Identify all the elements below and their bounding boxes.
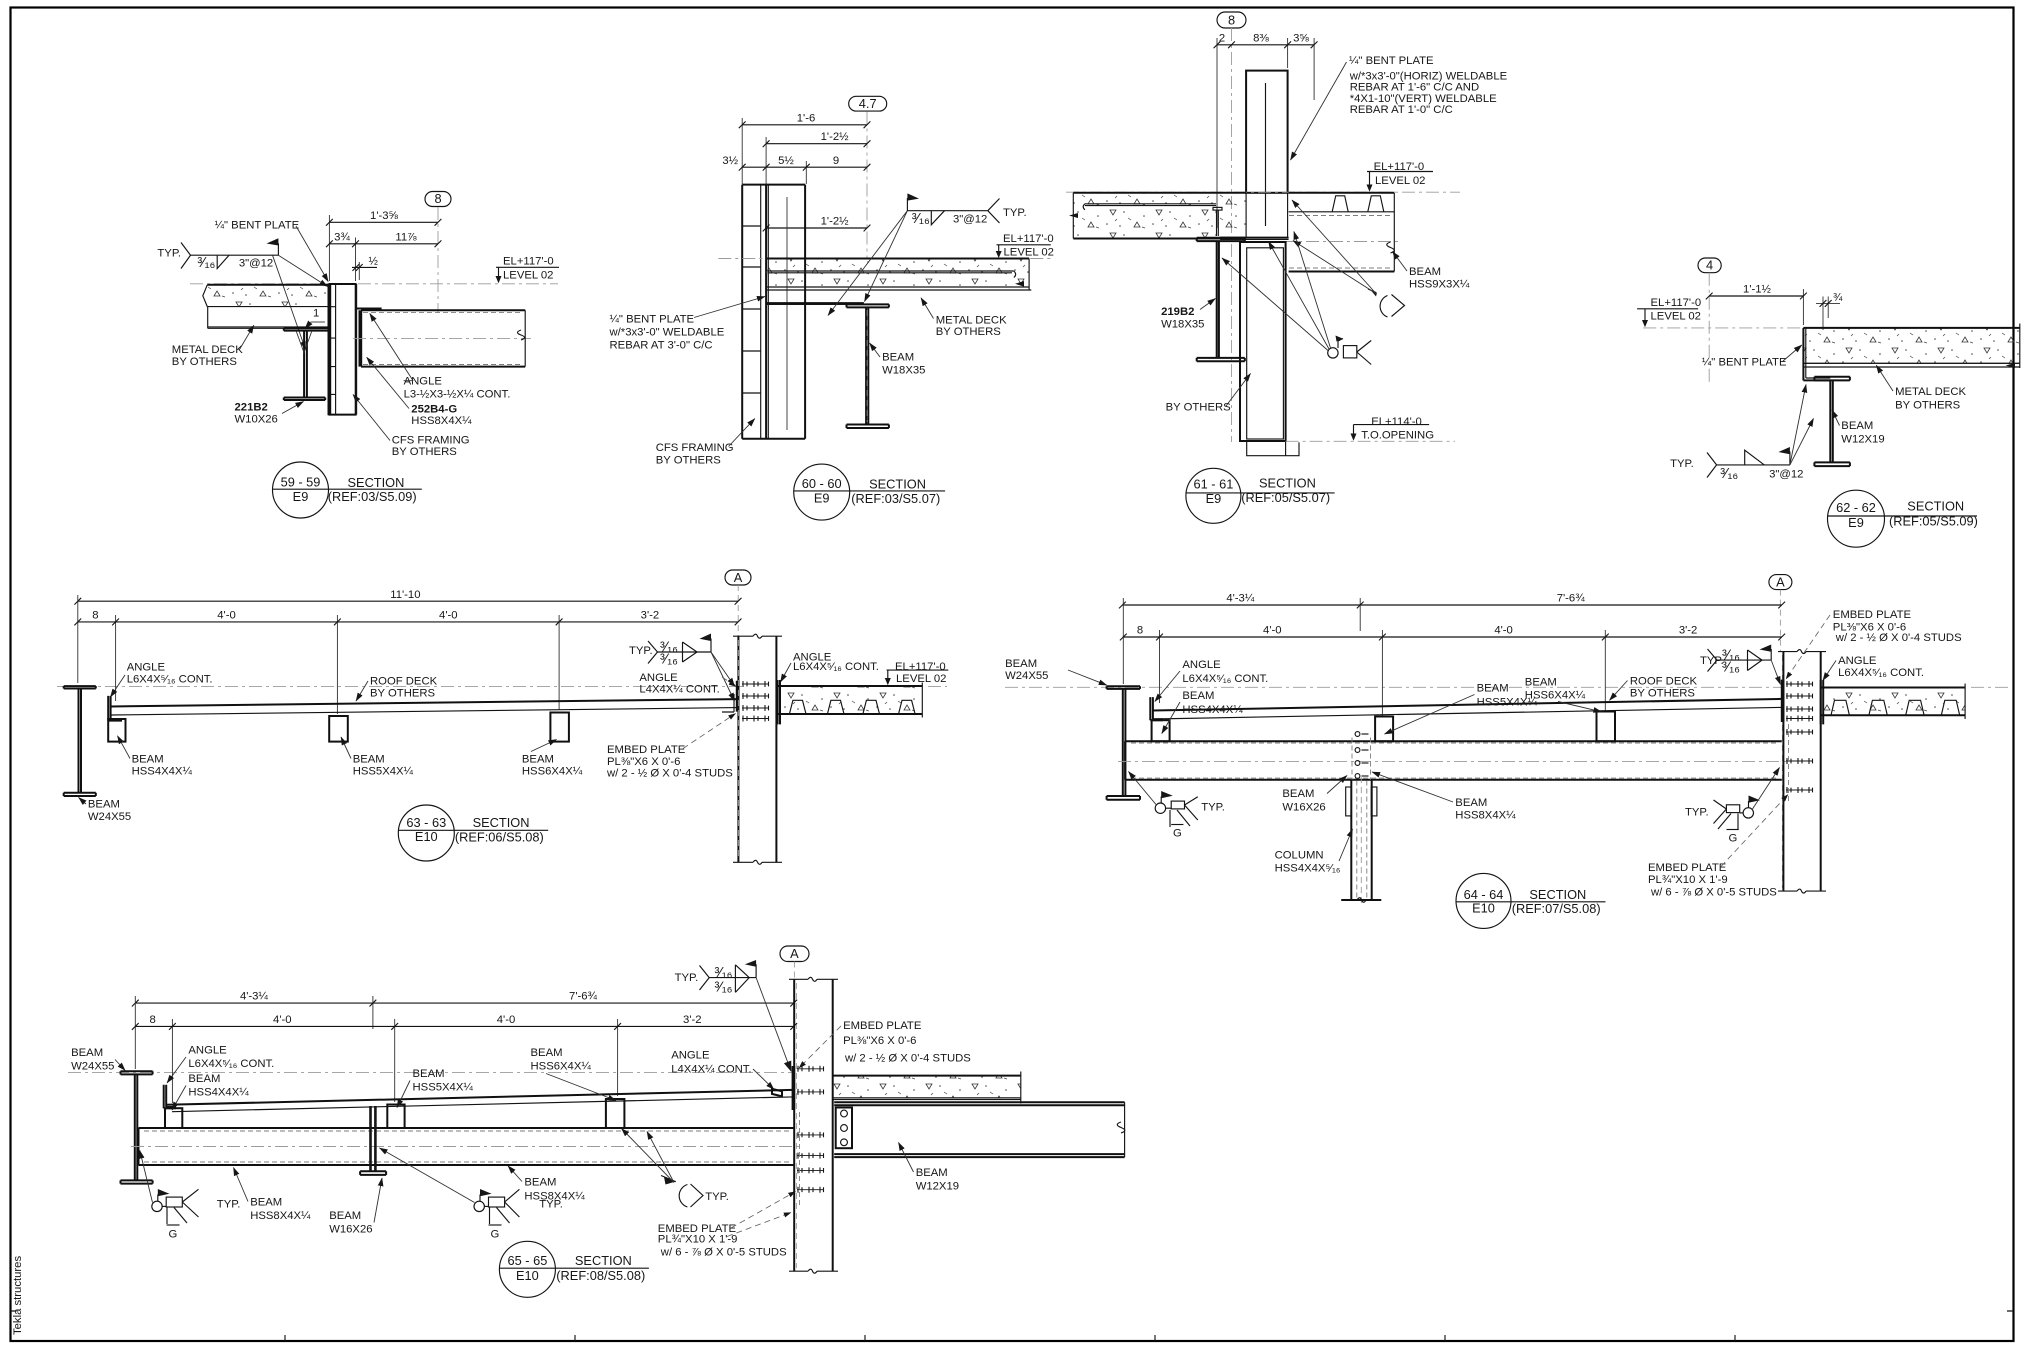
label EMBED PLATE PL3/8 top right xyxy=(799,1020,971,1068)
dims 8, 4'-0, 4'-0, 3'-2 xyxy=(132,996,797,1103)
svg-text:PL¾"X10 X 1'-9: PL¾"X10 X 1'-9 xyxy=(1648,874,1728,886)
svg-text:EMBED PLATE: EMBED PLATE xyxy=(843,1020,922,1032)
svg-text:E9: E9 xyxy=(1848,515,1864,530)
svg-text:ANGLE: ANGLE xyxy=(671,1050,710,1062)
svg-text:BEAM: BEAM xyxy=(1282,788,1314,800)
embed plate at wall face xyxy=(1782,680,1784,722)
beam HSS8X4X1/4 elevation xyxy=(131,1128,800,1165)
svg-text:HSS6X4X¼: HSS6X4X¼ xyxy=(531,1061,592,1073)
grid bubble 8 xyxy=(425,192,451,207)
label 1/4" BENT PLATE w/ rebar xyxy=(609,297,766,352)
svg-text:64 - 64: 64 - 64 xyxy=(1464,887,1504,902)
label COLUMN HSS4X4X5/16 xyxy=(1275,829,1353,875)
svg-text:(REF:03/S5.07): (REF:03/S5.07) xyxy=(851,491,940,506)
svg-text:w/*3x3'-0" WELDABLE: w/*3x3'-0" WELDABLE xyxy=(609,327,725,339)
beam W16X26 end at center xyxy=(360,1106,386,1175)
svg-text:E10: E10 xyxy=(415,829,438,844)
title 62-62 SECTION xyxy=(1828,490,1978,547)
weld leader xyxy=(756,978,791,1071)
label BY OTHERS xyxy=(1166,374,1251,414)
svg-text:ROOF DECK: ROOF DECK xyxy=(1630,676,1698,688)
svg-text:E10: E10 xyxy=(1472,901,1495,916)
metal deck line xyxy=(766,281,1031,290)
dimension 1/2 xyxy=(352,255,379,280)
svg-text:w/ 6 - ⅞ Ø X 0'-5 STUDS: w/ 6 - ⅞ Ø X 0'-5 STUDS xyxy=(1650,887,1777,899)
grid bubble 4.7 xyxy=(849,96,887,111)
label BEAM HSS6X4X1/4 xyxy=(531,1047,617,1101)
svg-text:(REF:07/S5.08): (REF:07/S5.08) xyxy=(1512,901,1601,916)
svg-text:PL⅜"X6 X 0'-6: PL⅜"X6 X 0'-6 xyxy=(843,1035,916,1047)
svg-text:¼" BENT PLATE: ¼" BENT PLATE xyxy=(610,314,695,326)
svg-text:BEAM: BEAM xyxy=(531,1047,563,1059)
post HSS4X4X1/4 xyxy=(108,719,125,742)
svg-text:4'-3¼: 4'-3¼ xyxy=(1226,593,1254,605)
CFS wall right face xyxy=(355,284,358,415)
svg-text:4'-0: 4'-0 xyxy=(1494,625,1512,637)
studs into wall lower xyxy=(797,1132,824,1193)
svg-text:HSS8X4X¼: HSS8X4X¼ xyxy=(250,1210,311,1222)
stud on beam flange xyxy=(1213,207,1222,236)
svg-text:E9: E9 xyxy=(814,491,830,506)
post HSS5X4X1/4 xyxy=(1375,717,1393,742)
bent plate bottom leg xyxy=(766,303,864,304)
svg-text:8⅜: 8⅜ xyxy=(1253,32,1269,44)
grid line 4 xyxy=(1708,273,1710,385)
svg-text:E9: E9 xyxy=(293,489,309,504)
grid line A xyxy=(737,585,739,636)
svg-text:BEAM: BEAM xyxy=(1477,682,1509,694)
title 65-65 SECTION xyxy=(499,1241,649,1297)
level marker EL+117'-0 LEVEL 02 xyxy=(996,233,1054,259)
svg-text:3¾: 3¾ xyxy=(334,232,350,244)
svg-text:³⁄₁₆: ³⁄₁₆ xyxy=(1722,660,1740,676)
dim 1'-2 1/2 xyxy=(763,131,871,184)
lower weld leaders xyxy=(1269,242,1330,350)
svg-text:1: 1 xyxy=(313,308,319,320)
weld symbol TYP 3/16 3"@12 xyxy=(157,238,278,271)
svg-text:L4X4X¼ CONT.: L4X4X¼ CONT. xyxy=(639,684,719,696)
beam W24X55 I-section left xyxy=(121,1071,153,1183)
svg-text:BEAM: BEAM xyxy=(132,753,164,765)
dim 1'-1 1/2 xyxy=(1706,284,1807,325)
grid line A xyxy=(1779,590,1781,652)
beam 221B2 W10X26 I-section xyxy=(284,328,329,400)
weld leaders xyxy=(1790,419,1814,465)
svg-text:PL¾"X10 X 1'-9: PL¾"X10 X 1'-9 xyxy=(658,1233,738,1245)
svg-text:3½: 3½ xyxy=(722,155,738,167)
post HSS6X4X1/4 xyxy=(1597,712,1616,742)
dim 1'-6 xyxy=(739,112,871,184)
svg-text:Tekla structures: Tekla structures xyxy=(12,1256,24,1335)
svg-text:BEAM: BEAM xyxy=(524,1177,556,1189)
svg-text:CFS FRAMING: CFS FRAMING xyxy=(656,442,734,454)
svg-text:W24X55: W24X55 xyxy=(71,1061,114,1073)
label ROOF DECK BY OTHERS xyxy=(356,676,438,702)
dims 8, 4'-0, 4'-0, 3'-2 xyxy=(74,595,741,714)
svg-text:1'-6: 1'-6 xyxy=(797,112,815,124)
svg-text:1'-2½: 1'-2½ xyxy=(821,131,849,143)
svg-text:EL+114'-0: EL+114'-0 xyxy=(1371,416,1422,428)
label BEAM W24X55 xyxy=(1005,658,1107,685)
svg-text:ANGLE: ANGLE xyxy=(127,662,166,674)
dimension 3 3/4 and 11 7/8 xyxy=(326,232,441,281)
svg-text:HSS4X4X¼: HSS4X4X¼ xyxy=(1182,704,1243,716)
svg-text:METAL DECK: METAL DECK xyxy=(936,314,1007,326)
post HSS6X4X1/4 xyxy=(550,713,569,742)
svg-text:W24X55: W24X55 xyxy=(1005,670,1048,682)
weldable rebar in slab xyxy=(1083,204,1216,210)
G weld symbol right xyxy=(474,1189,563,1240)
svg-text:TYP.: TYP. xyxy=(1003,207,1027,219)
svg-text:BY OTHERS: BY OTHERS xyxy=(370,687,436,699)
sloped roof deck xyxy=(166,1090,792,1112)
G weld leader left xyxy=(140,1151,153,1203)
title 63-63 SECTION xyxy=(398,805,548,861)
post HSS6X4X1/4 xyxy=(606,1099,625,1128)
svg-text:1'-2½: 1'-2½ xyxy=(821,216,849,228)
grid line A xyxy=(793,962,795,980)
svg-text:4.7: 4.7 xyxy=(859,96,877,111)
svg-text:BEAM: BEAM xyxy=(329,1210,361,1222)
svg-text:METAL DECK: METAL DECK xyxy=(172,344,243,356)
weld symbol lower w/ circle and box xyxy=(1328,336,1371,365)
weld K leaders xyxy=(1292,200,1376,294)
label BEAM W12X19 xyxy=(899,1143,960,1193)
label BEAM W24X55 xyxy=(79,798,132,823)
svg-text:BEAM: BEAM xyxy=(250,1196,282,1208)
svg-text:(REF:08/S5.08): (REF:08/S5.08) xyxy=(556,1268,645,1283)
svg-text:LEVEL 02: LEVEL 02 xyxy=(896,673,946,685)
svg-text:ANGLE: ANGLE xyxy=(404,376,443,388)
concrete slab xyxy=(1803,324,2019,369)
svg-text:SECTION: SECTION xyxy=(1529,887,1586,902)
grid bubble 8 xyxy=(1217,12,1246,28)
sloped roof deck xyxy=(1153,699,1782,719)
label ANGLE L6X4X5/16 CONT. left xyxy=(1155,659,1268,701)
svg-text:BEAM: BEAM xyxy=(916,1167,948,1179)
angle L4X4 at deck end xyxy=(722,694,734,712)
label ANGLE L6X4X5/16 CONT. right xyxy=(1823,655,1924,680)
svg-text:4'-0: 4'-0 xyxy=(439,610,457,622)
label ANGLE L3-1/2X3-1/2X1/4 CONT. xyxy=(370,314,511,401)
svg-text:W10X26: W10X26 xyxy=(235,414,278,426)
beam W24X55 I-section left xyxy=(1107,686,1140,800)
svg-text:8: 8 xyxy=(1137,625,1143,637)
svg-text:REBAR AT 1'-6" C/C AND: REBAR AT 1'-6" C/C AND xyxy=(1350,81,1479,93)
label 252B4-G HSS8X4X1/4 xyxy=(367,357,472,427)
grid line 8 xyxy=(437,207,439,313)
label BEAM HSS6X4X1/4 xyxy=(522,740,583,778)
label BEAM HSS6X4X1/4 xyxy=(1525,676,1602,712)
svg-text:w/ 2 - ½ Ø X 0'-4 STUDS: w/ 2 - ½ Ø X 0'-4 STUDS xyxy=(606,768,733,780)
grid line 8 xyxy=(1231,28,1233,442)
deck flutes right of wall xyxy=(1289,193,1395,212)
svg-text:w/ 2 - ½ Ø X 0'-4 STUDS: w/ 2 - ½ Ø X 0'-4 STUDS xyxy=(1835,632,1962,644)
border centering tick marks xyxy=(11,1311,2014,1341)
T.O.OPENING datum line xyxy=(1286,440,1455,442)
svg-text:PL⅜"X6 X 0'-6: PL⅜"X6 X 0'-6 xyxy=(607,756,680,768)
label BEAM HSS9X3X1/4 xyxy=(1393,252,1470,291)
label METAL DECK BY OTHERS xyxy=(172,325,254,368)
beam W18X35 I-section xyxy=(847,304,889,428)
angle L4X4 at deck end xyxy=(772,1089,782,1096)
post HSS4X4X1/4 xyxy=(165,1108,182,1128)
svg-text:SECTION: SECTION xyxy=(869,477,926,492)
svg-text:CFS FRAMING: CFS FRAMING xyxy=(392,434,470,446)
label EMBED PLATE PL3/8 xyxy=(606,714,736,780)
wall segment ticks xyxy=(742,226,761,393)
svg-text:HSS8X4X¼: HSS8X4X¼ xyxy=(524,1190,585,1202)
embed plate at wall face xyxy=(737,681,739,712)
concrete slab on metal deck xyxy=(203,285,329,307)
dims 3 1/2, 5 1/2, 9 xyxy=(722,155,870,184)
svg-text:³⁄₁₆: ³⁄₁₆ xyxy=(197,255,215,271)
label BEAM HSS4X4X1/4 xyxy=(172,1073,249,1110)
svg-text:8: 8 xyxy=(1228,12,1235,27)
angle L6X4X5/16 at deck left end xyxy=(1150,697,1163,720)
G weld symbol left xyxy=(152,1189,241,1240)
svg-text:³⁄₁₆: ³⁄₁₆ xyxy=(715,965,733,981)
level datum line xyxy=(1643,327,2010,329)
level datum dash-dot line EL+117'-0 xyxy=(190,283,558,285)
label BEAM HSS8X4X1/4 right xyxy=(508,1166,585,1203)
label BEAM HSS5X4X1/4 xyxy=(341,737,414,778)
label ANGLE L4X4X1/4 CONT. xyxy=(639,672,736,696)
svg-text:4'-0: 4'-0 xyxy=(217,610,235,622)
svg-text:TYP.: TYP. xyxy=(629,645,653,657)
slab right of wall xyxy=(833,1072,1021,1104)
svg-text:W12X19: W12X19 xyxy=(916,1180,959,1192)
label EMBED PLATE PL3/4 bottom xyxy=(1648,795,1788,899)
svg-text:3'-2: 3'-2 xyxy=(683,1014,701,1026)
concrete slab left xyxy=(1069,193,1246,239)
svg-text:3"@12: 3"@12 xyxy=(953,213,987,225)
weld triangle at beam flange xyxy=(296,331,312,353)
sloped roof deck xyxy=(111,699,737,715)
svg-text:4'-0: 4'-0 xyxy=(497,1014,515,1026)
beam HSS9X3 elevation right xyxy=(1282,193,1399,272)
svg-text:7'-6¾: 7'-6¾ xyxy=(1557,593,1585,605)
svg-text:HSS5X4X¼: HSS5X4X¼ xyxy=(413,1082,474,1094)
angle L6X4X5/16 at deck left end xyxy=(164,1085,176,1109)
svg-text:TYP.: TYP. xyxy=(675,972,699,984)
svg-text:3'-2: 3'-2 xyxy=(641,610,659,622)
beam W24X55 I-section left xyxy=(64,686,96,796)
dimension 1'-3 5/8 xyxy=(326,210,441,281)
label ANGLE L6X4X5/16 CONT. left xyxy=(110,662,212,697)
label ANGLE L6X4X5/16 CONT. xyxy=(167,1045,274,1084)
svg-text:³⁄₁₆: ³⁄₁₆ xyxy=(660,651,678,667)
slab right of wall xyxy=(778,683,923,718)
label 1/4" BENT PLATE w/ horiz+vert rebar xyxy=(1291,55,1508,160)
svg-text:HSS8X4X¼: HSS8X4X¼ xyxy=(1455,810,1516,822)
svg-text:(REF:05/S5.07): (REF:05/S5.07) xyxy=(1241,490,1330,505)
label CFS FRAMING BY OTHERS xyxy=(353,395,470,459)
angle L6X4 on wall right face xyxy=(778,680,780,724)
label BEAM HSS5X4X1/4 xyxy=(397,1068,473,1108)
weld symbol TYP 3/16 3/16 top xyxy=(675,960,757,996)
svg-text:BEAM: BEAM xyxy=(188,1073,220,1085)
studs into wall lower xyxy=(1786,729,1813,793)
label BEAM W18X35 xyxy=(870,343,926,377)
label BEAM W16X26 xyxy=(329,1178,382,1236)
weld symbol TYP 3/16 3/16 at wall xyxy=(629,634,711,668)
title 61-61 SECTION xyxy=(1186,468,1335,523)
G weld leader right xyxy=(1753,768,1780,810)
svg-text:BEAM: BEAM xyxy=(353,753,385,765)
angle L6X4X5/16 at deck left end xyxy=(108,696,122,721)
bent plate w/ rebar panel above slab xyxy=(1246,71,1288,238)
G weld leader left xyxy=(1129,772,1157,805)
svg-text:G: G xyxy=(1729,832,1738,844)
beam 252B4-G HSS8X4 elevation xyxy=(353,310,531,366)
svg-text:HSS9X3X¼: HSS9X3X¼ xyxy=(1409,278,1470,290)
wall top and bottom xyxy=(329,284,357,415)
svg-text:BEAM: BEAM xyxy=(1005,658,1037,670)
datum dash-dot line xyxy=(1005,686,1783,688)
label ANGLE L4X4X1/4 CONT. xyxy=(671,1050,774,1090)
svg-text:EL+117'-0: EL+117'-0 xyxy=(1003,233,1054,245)
svg-text:HSS6X4X¼: HSS6X4X¼ xyxy=(522,766,583,778)
level marker EL+117'-0 LEVEL 02 xyxy=(1637,297,1701,328)
svg-text:W24X55: W24X55 xyxy=(88,811,131,823)
svg-text:3'-2: 3'-2 xyxy=(1679,625,1697,637)
svg-text:219B2: 219B2 xyxy=(1161,306,1194,318)
dims 2, 8 3/8, 3 5/8 xyxy=(1214,32,1318,228)
bent plate w/ weldable rebar elevation xyxy=(766,185,805,439)
level marker EL+114'-0 T.O.OPENING xyxy=(1351,416,1435,441)
datum dash-dot line xyxy=(57,685,742,687)
svg-text:w/ 2 - ½ Ø X 0'-4 STUDS: w/ 2 - ½ Ø X 0'-4 STUDS xyxy=(844,1053,971,1065)
svg-text:W12X19: W12X19 xyxy=(1841,434,1884,446)
datum dash-dot line xyxy=(68,1071,794,1073)
grid bubble A xyxy=(725,570,751,585)
dims 8, 4'-0, 4'-0, 3'-2 xyxy=(1120,598,1785,716)
svg-text:EMBED PLATE: EMBED PLATE xyxy=(1833,609,1912,621)
label BEAM W16X26 xyxy=(1282,776,1347,814)
embed plate at wall face upper xyxy=(793,1066,795,1110)
svg-text:11⅞: 11⅞ xyxy=(395,232,417,244)
segment ticks on track xyxy=(330,307,335,395)
embed plate hidden edge xyxy=(799,1112,801,1207)
svg-text:4'-3¼: 4'-3¼ xyxy=(240,991,268,1003)
grid bubble A xyxy=(1769,575,1792,590)
title 64-64 SECTION xyxy=(1456,873,1606,928)
svg-text:HSS6X4X¼: HSS6X4X¼ xyxy=(1525,689,1586,701)
svg-text:3⅝: 3⅝ xyxy=(1293,32,1309,44)
title 60-60 SECTION xyxy=(794,464,945,520)
svg-text:W18X35: W18X35 xyxy=(1161,318,1204,330)
title 59-59 SECTION xyxy=(272,462,421,518)
svg-text:BY OTHERS: BY OTHERS xyxy=(172,356,238,368)
CFS panel BY OTHERS xyxy=(1240,242,1299,456)
label 1/4" BENT PLATE xyxy=(1702,345,1802,369)
post HSS4X4X1/4 xyxy=(1152,720,1170,741)
level marker EL+117'-0 LEVEL 02 xyxy=(496,255,560,283)
svg-text:L6X4X⁵⁄₁₆ CONT.: L6X4X⁵⁄₁₆ CONT. xyxy=(1838,667,1924,679)
label BEAM HSS8X4X1/4 xyxy=(1372,772,1516,822)
svg-text:63 - 63: 63 - 63 xyxy=(406,815,446,830)
svg-text:TYP.: TYP. xyxy=(1670,458,1694,470)
svg-text:¼" BENT PLATE: ¼" BENT PLATE xyxy=(215,219,300,231)
svg-text:ANGLE: ANGLE xyxy=(639,672,678,684)
svg-text:59 - 59: 59 - 59 xyxy=(281,475,321,490)
column collar plates xyxy=(1346,787,1377,816)
svg-text:EMBED PLATE: EMBED PLATE xyxy=(1648,862,1727,874)
svg-text:¼" BENT PLATE: ¼" BENT PLATE xyxy=(1702,357,1787,369)
svg-text:LEVEL 02: LEVEL 02 xyxy=(1004,247,1054,259)
svg-text:SECTION: SECTION xyxy=(575,1253,632,1268)
svg-text:EMBED PLATE: EMBED PLATE xyxy=(607,744,686,756)
studs into wall xyxy=(742,681,769,722)
svg-text:TYP.: TYP. xyxy=(1201,802,1225,814)
svg-text:A: A xyxy=(1776,574,1785,589)
dim 3/4 xyxy=(1816,292,1843,330)
svg-text:3"@12: 3"@12 xyxy=(239,258,273,270)
G weld symbol right xyxy=(1685,796,1760,845)
level marker EL+117'-0 LEVEL 02 xyxy=(1367,161,1434,192)
label BEAM HSS4X4X1/4 xyxy=(118,736,193,778)
svg-text:HSS4X4X¼: HSS4X4X¼ xyxy=(132,766,193,778)
svg-text:L6X4X⁵⁄₁₆ CONT.: L6X4X⁵⁄₁₆ CONT. xyxy=(188,1058,274,1070)
svg-text:W16X26: W16X26 xyxy=(1282,802,1325,814)
svg-text:L6X4X⁵⁄₁₆ CONT.: L6X4X⁵⁄₁₆ CONT. xyxy=(793,661,879,673)
svg-text:TYP.: TYP. xyxy=(157,247,181,259)
svg-text:HSS4X4X¼: HSS4X4X¼ xyxy=(188,1087,249,1099)
svg-text:E10: E10 xyxy=(516,1268,539,1283)
svg-text:L6X4X⁵⁄₁₆ CONT.: L6X4X⁵⁄₁₆ CONT. xyxy=(1182,673,1268,685)
svg-text:A: A xyxy=(734,570,743,585)
svg-text:BY OTHERS: BY OTHERS xyxy=(936,326,1002,338)
arc weld symbol TYP center right xyxy=(661,1176,729,1208)
svg-text:BEAM: BEAM xyxy=(1455,797,1487,809)
svg-text:SECTION: SECTION xyxy=(348,475,405,490)
slab right of wall xyxy=(1821,684,1965,720)
svg-text:SECTION: SECTION xyxy=(1907,499,1964,514)
svg-text:BEAM: BEAM xyxy=(1525,676,1557,688)
beam 219B2 W18X35 I-section xyxy=(1197,238,1245,361)
svg-text:SECTION: SECTION xyxy=(1259,476,1316,491)
post HSS5X4X1/4 xyxy=(387,1105,404,1129)
G weld symbol left xyxy=(1155,791,1225,839)
svg-text:TYP.: TYP. xyxy=(1685,806,1709,818)
svg-text:(REF:05/S5.09): (REF:05/S5.09) xyxy=(1889,514,1978,529)
svg-text:w/ 6 - ⅞ Ø X 0'-5 STUDS: w/ 6 - ⅞ Ø X 0'-5 STUDS xyxy=(660,1247,787,1259)
angle L3-1/2X3-1/2X1/4 top leg xyxy=(357,309,381,311)
svg-text:EL+117'-0: EL+117'-0 xyxy=(1651,297,1702,309)
1/4" bent plate L xyxy=(1803,328,1830,381)
svg-text:BEAM: BEAM xyxy=(88,799,120,811)
svg-text:4'-0: 4'-0 xyxy=(1263,625,1281,637)
grid bubble A xyxy=(780,946,809,962)
concrete wall at grid A xyxy=(733,634,782,864)
svg-text:62 - 62: 62 - 62 xyxy=(1836,500,1876,515)
datum continues right xyxy=(928,685,947,687)
beam W12X19 I-section xyxy=(1814,377,1850,466)
dim 11'-10 xyxy=(74,589,741,605)
weld leader xyxy=(1771,660,1780,684)
svg-text:3"@12: 3"@12 xyxy=(1769,468,1803,480)
arc weld leaders xyxy=(622,1129,675,1183)
svg-text:³⁄₁₆: ³⁄₁₆ xyxy=(912,211,930,227)
svg-text:BEAM: BEAM xyxy=(71,1047,103,1059)
beam HSS8X4X1/4 sloped elevation xyxy=(1118,741,1788,780)
svg-text:1'-3⅝: 1'-3⅝ xyxy=(370,210,398,222)
svg-text:TYP.: TYP. xyxy=(705,1191,729,1203)
svg-text:BEAM: BEAM xyxy=(522,753,554,765)
svg-text:BY OTHERS: BY OTHERS xyxy=(1166,402,1232,414)
metal deck lines xyxy=(1803,363,2019,368)
